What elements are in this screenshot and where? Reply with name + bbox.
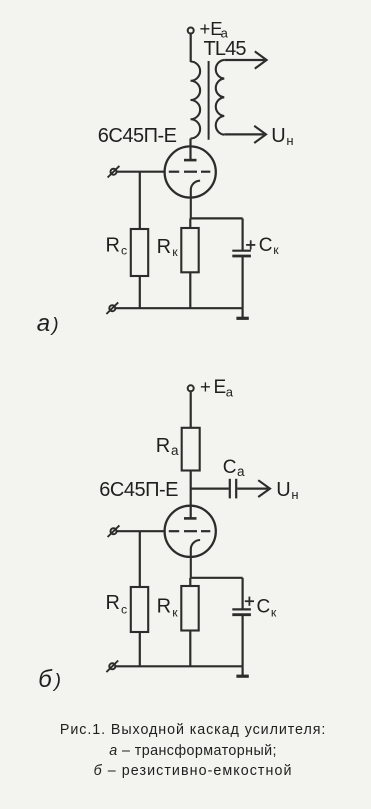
svg-text:R: R [106, 592, 120, 614]
ground stub (circuit b) [242, 666, 244, 676]
supply terminal +Ea (circuit a) [188, 28, 194, 34]
svg-text:TL45: TL45 [204, 38, 247, 60]
svg-text:C: C [259, 235, 273, 256]
input terminal (circuit a) [108, 166, 120, 178]
transformer TL45 secondary winding [216, 60, 224, 135]
svg-text:6С45П-Е: 6С45П-Е [98, 125, 177, 147]
secondary bottom output wire [224, 133, 264, 135]
wire: Ck to bottom rail (circuit b) [242, 615, 244, 667]
svg-text:R: R [157, 236, 171, 258]
label Rc (circuit a) [106, 235, 128, 258]
svg-text:R: R [156, 435, 170, 457]
transformer TL45 core [208, 61, 210, 140]
label Uн (circuit b) [276, 479, 298, 502]
svg-text:н: н [286, 133, 293, 148]
wire: +Ea terminal to transformer primary [190, 34, 192, 62]
wire: primary bottom to anode (circuit a) [189, 139, 191, 160]
polarity + of Ck (circuit a) [246, 240, 255, 249]
grid dashes (circuit b) [169, 530, 211, 532]
wire: Rk to bottom rail (circuit b) [189, 631, 191, 667]
cathode (circuit a) [191, 181, 200, 219]
cathode (circuit b) [191, 540, 200, 578]
wire: anode node to Ca [191, 488, 229, 490]
label + Ea (circuit b) [200, 376, 234, 399]
svg-text:E: E [214, 377, 227, 398]
supply terminal +Ea (circuit b) [188, 385, 194, 391]
wire: Rc to bottom rail (circuit a) [139, 276, 141, 308]
svg-text:а: а [226, 384, 234, 399]
secondary top output wire [224, 59, 264, 61]
label Ca [223, 457, 245, 479]
capacitor Ck plates (circuit a) [232, 251, 251, 256]
svg-text:а: а [237, 464, 245, 479]
ground bar (circuit b) [236, 675, 248, 678]
svg-text:R: R [106, 235, 120, 257]
secondary top arrowhead [255, 51, 267, 68]
wire: cathode junction to Ck (circuit a) [190, 217, 242, 219]
resistor Ra [182, 428, 200, 471]
svg-text:а): а) [37, 310, 61, 337]
svg-text:U: U [271, 125, 285, 147]
svg-text:к: к [172, 245, 178, 259]
bottom terminal (circuit a) [106, 302, 118, 314]
caption line 3 [8, 763, 371, 779]
label Ra [156, 435, 179, 458]
capacitor Ca [230, 479, 236, 499]
svg-text:к: к [273, 243, 279, 257]
input terminal (circuit b) [108, 525, 120, 537]
resistor Rk (circuit a) [181, 228, 198, 272]
polarity + of Ck (circuit b) [245, 597, 254, 606]
anode plate (circuit b) [184, 517, 197, 520]
label Cк (circuit b) [257, 596, 277, 619]
ground bar (circuit a) [236, 317, 248, 320]
svg-text:+E: +E [200, 18, 223, 39]
wire: grid node to Rc (circuit a) [139, 172, 141, 229]
label Rк (circuit b) [157, 595, 179, 619]
caption line 2 [8, 743, 371, 759]
wire: Rk to bottom rail (circuit a) [189, 272, 191, 308]
svg-text:C: C [257, 596, 271, 617]
label Rк (circuit a) [157, 236, 179, 259]
capacitor Ck plates (circuit b) [232, 609, 251, 614]
svg-text:R: R [157, 595, 171, 617]
transformer TL45 primary winding [191, 62, 201, 139]
label +Ea (circuit a) [200, 18, 229, 40]
anode plate (circuit a) [184, 159, 197, 162]
wire: +Ea terminal to Ra [190, 392, 192, 428]
svg-text:U: U [276, 479, 290, 501]
wire: cathode junction to Ck (circuit b) [190, 577, 242, 579]
secondary bottom arrowhead [254, 126, 266, 143]
caption line 1 [8, 722, 371, 738]
wire: input terminal to grid (circuit a) [117, 171, 166, 173]
triode 6С45П-Е envelope (circuit b) [165, 506, 216, 557]
wire: input terminal to grid (circuit b) [117, 530, 166, 532]
resistor Rk (circuit b) [181, 586, 198, 631]
svg-text:к: к [271, 606, 277, 620]
svg-text:б): б) [38, 666, 64, 693]
svg-text:н: н [291, 487, 298, 502]
output arrowhead (circuit b) [258, 480, 270, 497]
svg-text:+: + [200, 376, 211, 397]
ground stub (circuit a) [242, 308, 244, 318]
bottom terminal (circuit b) [106, 661, 118, 673]
resistor Rc (circuit a) [131, 229, 148, 276]
svg-text:C: C [223, 457, 237, 478]
resistor Rc (circuit b) [131, 587, 148, 632]
wire: Ck to bottom rail (circuit a) [242, 256, 244, 308]
wire: cathode junction to Rk (circuit a) [189, 218, 191, 228]
wire: Ra to anode (circuit b) [190, 471, 192, 519]
label Cк (circuit a) [259, 235, 279, 257]
svg-text:к: к [172, 606, 178, 620]
svg-text:с: с [121, 602, 127, 616]
svg-text:а: а [171, 443, 179, 458]
label Rc (circuit b) [106, 592, 128, 616]
wire: grid node to Rc (circuit b) [139, 531, 141, 587]
svg-text:6С45П-Е: 6С45П-Е [99, 479, 178, 501]
wire: cathode junction to Rk (circuit b) [189, 578, 191, 586]
bottom rail (circuit b) [116, 665, 243, 667]
svg-text:с: с [121, 244, 127, 258]
bottom rail (circuit a) [116, 307, 243, 309]
triode 6С45П-Е envelope (circuit a) [165, 146, 216, 197]
grid dashes (circuit a) [169, 171, 211, 173]
wire: Rc to bottom rail (circuit b) [139, 632, 141, 666]
wire: Ca to output arrow [237, 488, 268, 490]
label Uн (circuit a) [271, 125, 293, 148]
